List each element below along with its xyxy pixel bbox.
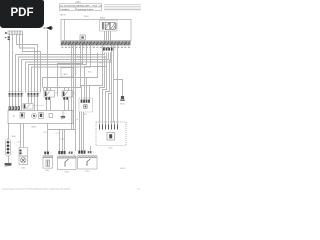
motor 1C30 <box>19 148 30 170</box>
wire to switch CV10 b <box>81 112 83 151</box>
fuse F1 inside BSI1 <box>80 35 85 40</box>
wire bus line 1 <box>16 53 105 93</box>
wires from sub-box to pins inside BSI1 <box>105 31 111 42</box>
connector combs under BSI1 right pins <box>103 48 113 51</box>
BF00 internal fuses <box>20 113 53 119</box>
ground MC30 <box>120 96 125 106</box>
wire relay K1 feed b <box>46 88 48 91</box>
svg-text:12: 12 <box>114 49 116 51</box>
wire to switch CV10 a <box>79 112 81 151</box>
svg-text:Combine: Combine <box>60 9 70 11</box>
svg-text:8007: 8007 <box>46 170 50 172</box>
svg-text:84: 84 <box>77 119 79 121</box>
ground inside BF00 <box>61 111 65 119</box>
wire to switch CV00 a <box>59 130 61 152</box>
wire bus line 5 <box>29 45 87 92</box>
wire BF00 to connector M010 <box>8 124 10 140</box>
svg-text:B003: B003 <box>99 63 103 65</box>
wire to dashed unit feed 1 <box>82 45 103 99</box>
svg-text:1510: 1510 <box>61 139 65 141</box>
wire middle vertical 3 <box>75 45 77 129</box>
svg-text:12: 12 <box>13 116 16 118</box>
wire BF00 to motor 1C30 b <box>23 124 25 148</box>
wire bus line 2 <box>19 53 107 93</box>
svg-text:V510: V510 <box>44 132 48 134</box>
wire left connector down right <box>23 35 41 93</box>
svg-text:21: 21 <box>74 93 76 95</box>
svg-text:10: 10 <box>75 73 77 75</box>
comb on BF00 top <box>9 106 20 110</box>
relay on BF00 top <box>23 104 44 110</box>
wire left connector to comb G2 c <box>20 35 35 93</box>
wire relay K1 to BF00 a <box>46 100 48 111</box>
wire relay feed line <box>44 45 81 90</box>
wire to rear unit pin 4 <box>109 45 112 124</box>
wire from arrow symbol to relay K1 <box>47 30 49 91</box>
relay K2 <box>62 91 75 100</box>
header ruled block <box>104 4 141 8</box>
connector comb group G2 <box>28 91 39 97</box>
wire to switch CV00 c <box>64 130 66 152</box>
wire long bus line <box>43 53 98 88</box>
svg-text:MC10: MC10 <box>121 168 126 170</box>
svg-text:2: 2 <box>51 153 52 155</box>
svg-text:21: 21 <box>75 70 77 72</box>
svg-text:1: 1 <box>93 151 94 153</box>
wire to dashed unit feed 4 <box>89 86 91 100</box>
PDF badge <box>0 0 44 28</box>
wire to switch CV10 c <box>83 112 85 151</box>
wire to rear unit pin 2 <box>103 58 107 125</box>
wire left connector to comb G2 d <box>17 35 38 93</box>
wire to ground MC30 <box>114 45 123 96</box>
fuse unit BF00 box <box>8 111 73 124</box>
wire comb G1 to BF00 a <box>9 97 11 107</box>
battery detail sub-box inside BSI1 <box>100 20 118 31</box>
svg-text:8500: 8500 <box>84 16 89 18</box>
svg-text:MC30: MC30 <box>120 104 125 106</box>
ground MC10 <box>5 163 12 166</box>
wire from left connector pin 1 <box>9 35 11 93</box>
wire comb G2 to BF00 c <box>34 97 36 111</box>
svg-text:B001: B001 <box>77 57 81 59</box>
wire relay K1 to BF00 b <box>50 100 52 111</box>
wire relay K2 to BF00 a <box>64 100 66 111</box>
svg-text:810: 810 <box>84 114 87 116</box>
wire to switch CV00 b <box>62 130 64 152</box>
wire bus line 6 <box>32 45 91 92</box>
svg-text:12C0: 12C0 <box>56 133 60 135</box>
wire to rear unit pin 7 <box>117 45 119 124</box>
wire middle vertical 1 <box>71 45 73 129</box>
svg-text:1C30: 1C30 <box>21 168 25 170</box>
svg-text:B002: B002 <box>88 72 92 74</box>
svg-text:Degivrage arriere: Degivrage arriere <box>76 8 94 11</box>
wire to rear unit pin 5 <box>111 94 113 125</box>
wire middle vertical 2 <box>73 45 75 129</box>
header table <box>60 4 102 11</box>
wire relay K2 feed a <box>64 88 66 91</box>
svg-text:04. 07/10/2018 0480940 (2B7) -: 04. 07/10/2018 0480940 (2B7) - Y004 - C5 <box>60 5 102 7</box>
wire to rear unit pin 3 <box>106 60 110 125</box>
svg-text:12C0: 12C0 <box>17 142 21 144</box>
wire to switch CV10 d <box>90 146 92 151</box>
wire comb G2 to BF00 b <box>31 97 33 104</box>
switch CV00 <box>58 151 77 174</box>
svg-text:1: 1 <box>29 150 30 152</box>
wire M010 to ground MC10 <box>8 156 10 163</box>
wire BF00 to unit 8007 <box>47 124 49 152</box>
svg-text:BB00: BB00 <box>100 18 106 20</box>
svg-text:www.peugeot.mainspot.net/wirin: www.peugeot.mainspot.net/wiring/diagrams… <box>2 188 71 191</box>
wire comb G1 to BF00 c <box>15 97 17 107</box>
connector bar under badge <box>5 31 23 40</box>
wire relay K1 feed c <box>50 88 52 91</box>
wire BF00 to motor 1C30 a <box>20 124 22 148</box>
wire to dashed unit feed 3 <box>86 78 88 100</box>
BSI1 connector pin row <box>61 42 130 48</box>
svg-text:21: 21 <box>56 93 58 95</box>
svg-text:CV10: CV10 <box>85 171 90 173</box>
svg-text:1: 1 <box>74 152 75 154</box>
wire to dashed unit feed 2 <box>85 67 107 100</box>
switch CV10 <box>78 151 98 174</box>
dashed unit 8100 <box>79 98 93 116</box>
svg-text:8410: 8410 <box>109 148 113 150</box>
unit 8007 <box>43 152 53 173</box>
junction arrow symbol <box>44 26 54 30</box>
inline connector M010 <box>6 136 16 156</box>
wire to rear unit pin 6 <box>114 80 115 125</box>
wire from left connector pin 2 <box>12 35 14 93</box>
wire comb G2 to BF00 a <box>28 97 30 104</box>
rear window unit 8410 dashed box <box>96 122 126 150</box>
junction box CA00 <box>61 68 77 77</box>
wire to rear unit pin 1 <box>100 56 105 125</box>
wire comb G1 to BF00 d <box>18 97 20 107</box>
wire bus line 4 <box>26 53 111 93</box>
wire bus line 3 <box>22 53 109 93</box>
svg-text:CA00: CA00 <box>63 73 69 76</box>
wire bus line to relay area <box>58 45 83 96</box>
wire comb G1 to BF00 b <box>12 97 14 107</box>
connector comb group G1 <box>9 91 23 97</box>
svg-text:CV00: CV00 <box>64 172 69 174</box>
control unit BSI1 box <box>61 20 131 41</box>
svg-text:V8500: V8500 <box>60 15 67 17</box>
svg-text:BB10: BB10 <box>32 127 38 129</box>
wire comb G2 to BF00 d <box>37 97 39 111</box>
wire relay K2 to BF00 b <box>68 100 70 111</box>
svg-text:M010: M010 <box>12 136 16 138</box>
wire comb G1 to BF00 e <box>21 97 23 111</box>
wire relay K2 feed b <box>68 88 70 91</box>
svg-text:1/1: 1/1 <box>137 189 141 191</box>
relay K1 <box>44 91 57 100</box>
wire BF00 bottom bus <box>48 130 76 152</box>
